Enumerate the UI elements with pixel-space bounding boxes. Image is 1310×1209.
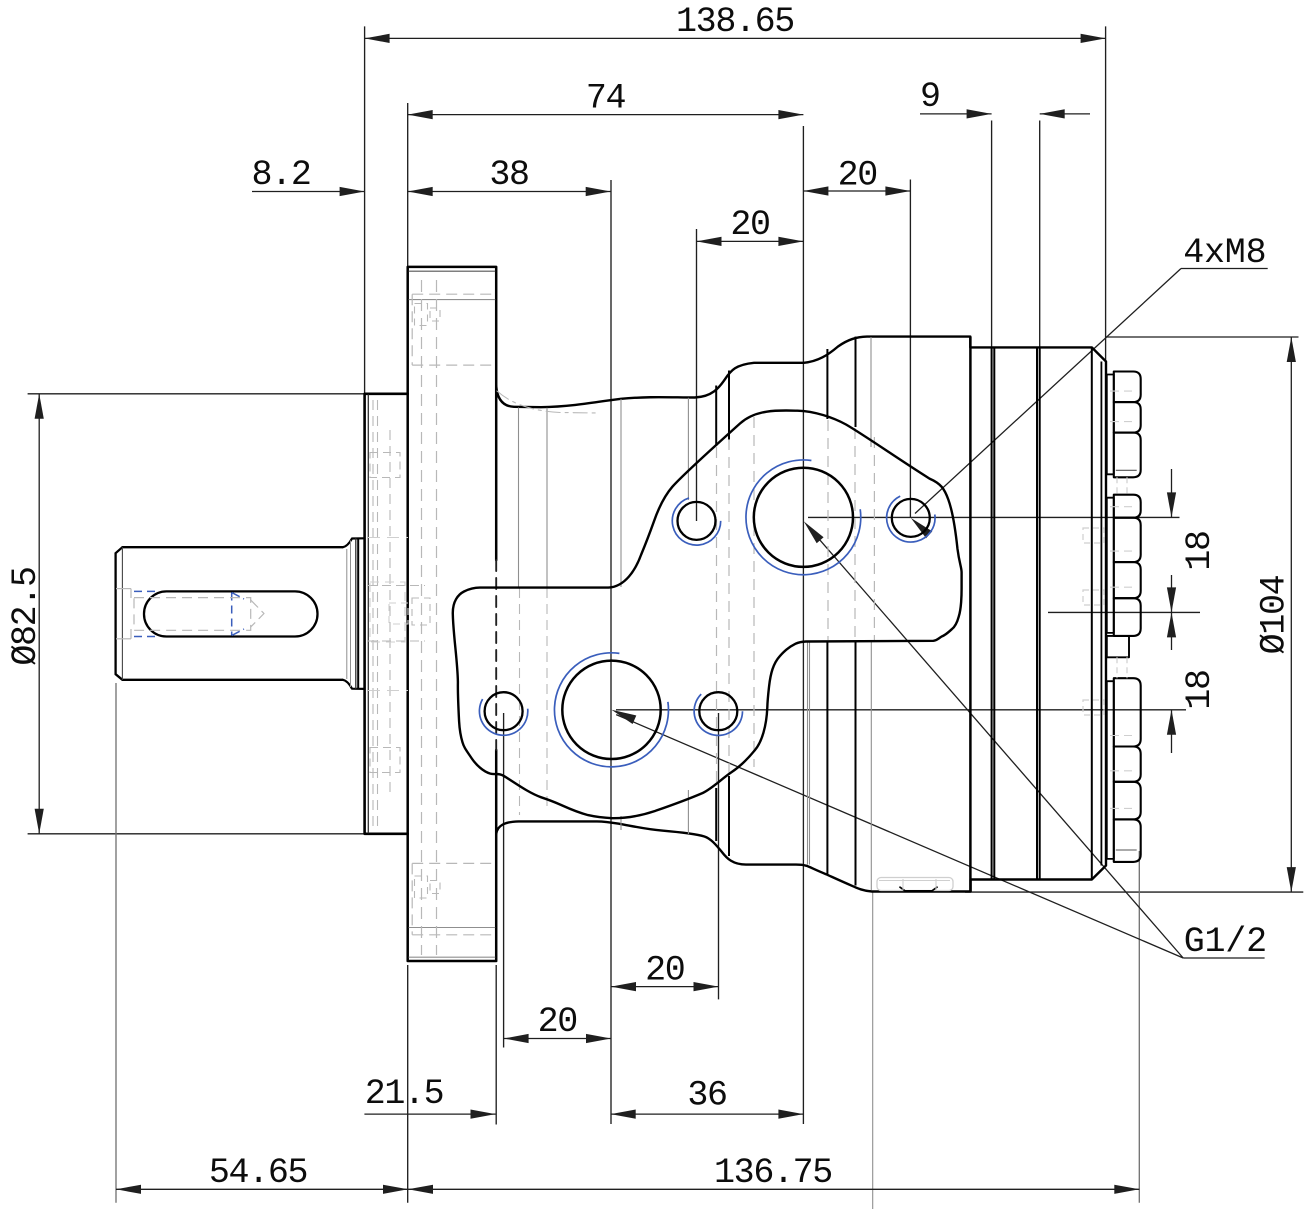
- extension line cover face right: [1105, 26, 1107, 360]
- body step edge d: [855, 337, 857, 427]
- svg-text:54.65: 54.65: [209, 1153, 307, 1193]
- section edge 1: [969, 337, 972, 892]
- mounting plate: [408, 267, 497, 961]
- svg-text:Ø104: Ø104: [1255, 575, 1295, 654]
- keyway slot: [144, 591, 318, 636]
- dimension 20 upper-right: [803, 190, 910, 192]
- hole M8 lower-right arc: [694, 694, 742, 735]
- hole M8 upper-left arc: [672, 498, 720, 545]
- dimension 21.5: [364, 1113, 495, 1115]
- extension line oe104 top: [1106, 336, 1299, 338]
- svg-text:G1/2: G1/2: [1184, 922, 1267, 962]
- dimension 36: [611, 1113, 804, 1115]
- svg-text:21.5: 21.5: [365, 1074, 444, 1114]
- svg-text:138.65: 138.65: [676, 2, 794, 42]
- drain plug bottom: [877, 878, 953, 891]
- svg-text:9: 9: [920, 77, 940, 117]
- dimension 54.65: [116, 1188, 408, 1190]
- extension line oe104 bottom: [965, 891, 1303, 893]
- cover inner face: [1100, 362, 1102, 866]
- bolt group middle: [1107, 498, 1114, 633]
- section edge 3: [993, 347, 995, 879]
- extension line plate front face top: [407, 103, 409, 266]
- svg-text:18: 18: [1180, 670, 1220, 709]
- extension line upper port center vertical: [802, 126, 804, 1124]
- hole M8 lower-right: [699, 692, 737, 730]
- extension line 18 middle: [1048, 611, 1200, 613]
- bolt group bottom: [1107, 681, 1114, 859]
- dimension 9: [920, 113, 992, 115]
- svg-text:Ø82.5: Ø82.5: [6, 567, 46, 665]
- extension line plate left bottom: [407, 965, 409, 1203]
- dimension 136.75: [408, 1188, 1139, 1190]
- dimension 138.65 overall length: [365, 37, 1106, 39]
- port A thread arc: [746, 460, 861, 575]
- dimension 38: [408, 191, 611, 193]
- section edge 4: [1036, 347, 1038, 879]
- hidden step edges dashed: [716, 447, 718, 787]
- dimension 8.2: [252, 191, 365, 193]
- flange hidden bolt holes: [412, 293, 493, 295]
- dimension 74: [408, 114, 804, 116]
- extension line 18 top: [808, 516, 1180, 518]
- port B (lower G1/2): [562, 661, 660, 759]
- body step edge c: [826, 349, 828, 419]
- flange disc: [365, 394, 408, 834]
- body step edge b: [728, 371, 730, 441]
- shaft flare fillet: [343, 538, 365, 689]
- extension line 18 bottom: [616, 709, 1186, 711]
- section edge 6: [1091, 347, 1093, 879]
- svg-text:8.2: 8.2: [252, 155, 311, 195]
- hole M8 lower-left: [485, 692, 523, 730]
- port B thread arc: [554, 653, 668, 767]
- extension line oe82.5 top: [28, 393, 365, 395]
- body step edge a: [715, 386, 717, 447]
- dimension 20 lower-right: [611, 986, 719, 988]
- bolt group top: [1107, 375, 1114, 475]
- bolt hidden shanks: [1116, 477, 1118, 494]
- keyway hidden lines blue: [231, 593, 233, 636]
- hole M8 upper-right: [892, 499, 930, 537]
- port A (upper G1/2): [754, 468, 853, 567]
- extension line lower-left M8 vertical: [503, 713, 505, 1048]
- cover hidden details: [1083, 528, 1104, 543]
- section edge 2: [991, 347, 993, 879]
- shaft collar faces: [355, 538, 357, 689]
- hole M8 upper-right arc: [887, 496, 935, 542]
- section edge 5: [1039, 347, 1041, 879]
- svg-text:20: 20: [838, 155, 877, 195]
- extension line lower-right M8 vertical: [718, 713, 720, 999]
- port boss pads outline: [453, 410, 962, 818]
- svg-text:136.75: 136.75: [714, 1153, 832, 1193]
- extension line shaft end bottom: [115, 683, 117, 1203]
- tangent dash-dot curve: [497, 391, 597, 413]
- shaft body: [116, 547, 343, 680]
- dimension dia104: [1290, 337, 1292, 892]
- svg-text:18: 18: [1180, 531, 1220, 570]
- dimension dia82.5: [38, 394, 40, 834]
- dimension 20 upper-mid: [697, 240, 804, 242]
- extension line oe82.5 bottom: [28, 833, 365, 835]
- dimension 20 lower-left: [504, 1038, 611, 1040]
- extension line upper-right M8 vertical: [909, 180, 911, 519]
- svg-text:20: 20: [730, 205, 769, 245]
- svg-text:4xM8: 4xM8: [1183, 233, 1266, 273]
- body contour lines gray: [518, 408, 520, 588]
- extension line flange front face: [364, 26, 366, 393]
- svg-text:36: 36: [687, 1076, 726, 1116]
- svg-text:38: 38: [489, 155, 528, 195]
- hole M8 upper-left: [678, 502, 716, 540]
- extension line body bottom stray: [872, 892, 874, 1209]
- shaft collar contour lines: [346, 549, 348, 679]
- extension line 9dim right: [1039, 121, 1041, 348]
- svg-text:74: 74: [586, 78, 626, 118]
- svg-text:20: 20: [645, 950, 684, 990]
- bolt small washer piece: [1107, 636, 1129, 657]
- motor body outline: [496, 337, 1106, 892]
- extension line upper-left M8 vertical: [696, 229, 698, 521]
- extension line 9dim left: [991, 121, 993, 348]
- keyway hidden outline gray: [134, 598, 251, 631]
- extension line lower port vertical: [610, 180, 612, 1124]
- extension line plate right bottom: [495, 965, 497, 1125]
- hole M8 lower-left arc: [479, 699, 527, 735]
- dimension 18 18 port spacing: [1171, 469, 1173, 517]
- extension line bolt face right: [1138, 851, 1140, 1203]
- svg-text:20: 20: [538, 1002, 577, 1042]
